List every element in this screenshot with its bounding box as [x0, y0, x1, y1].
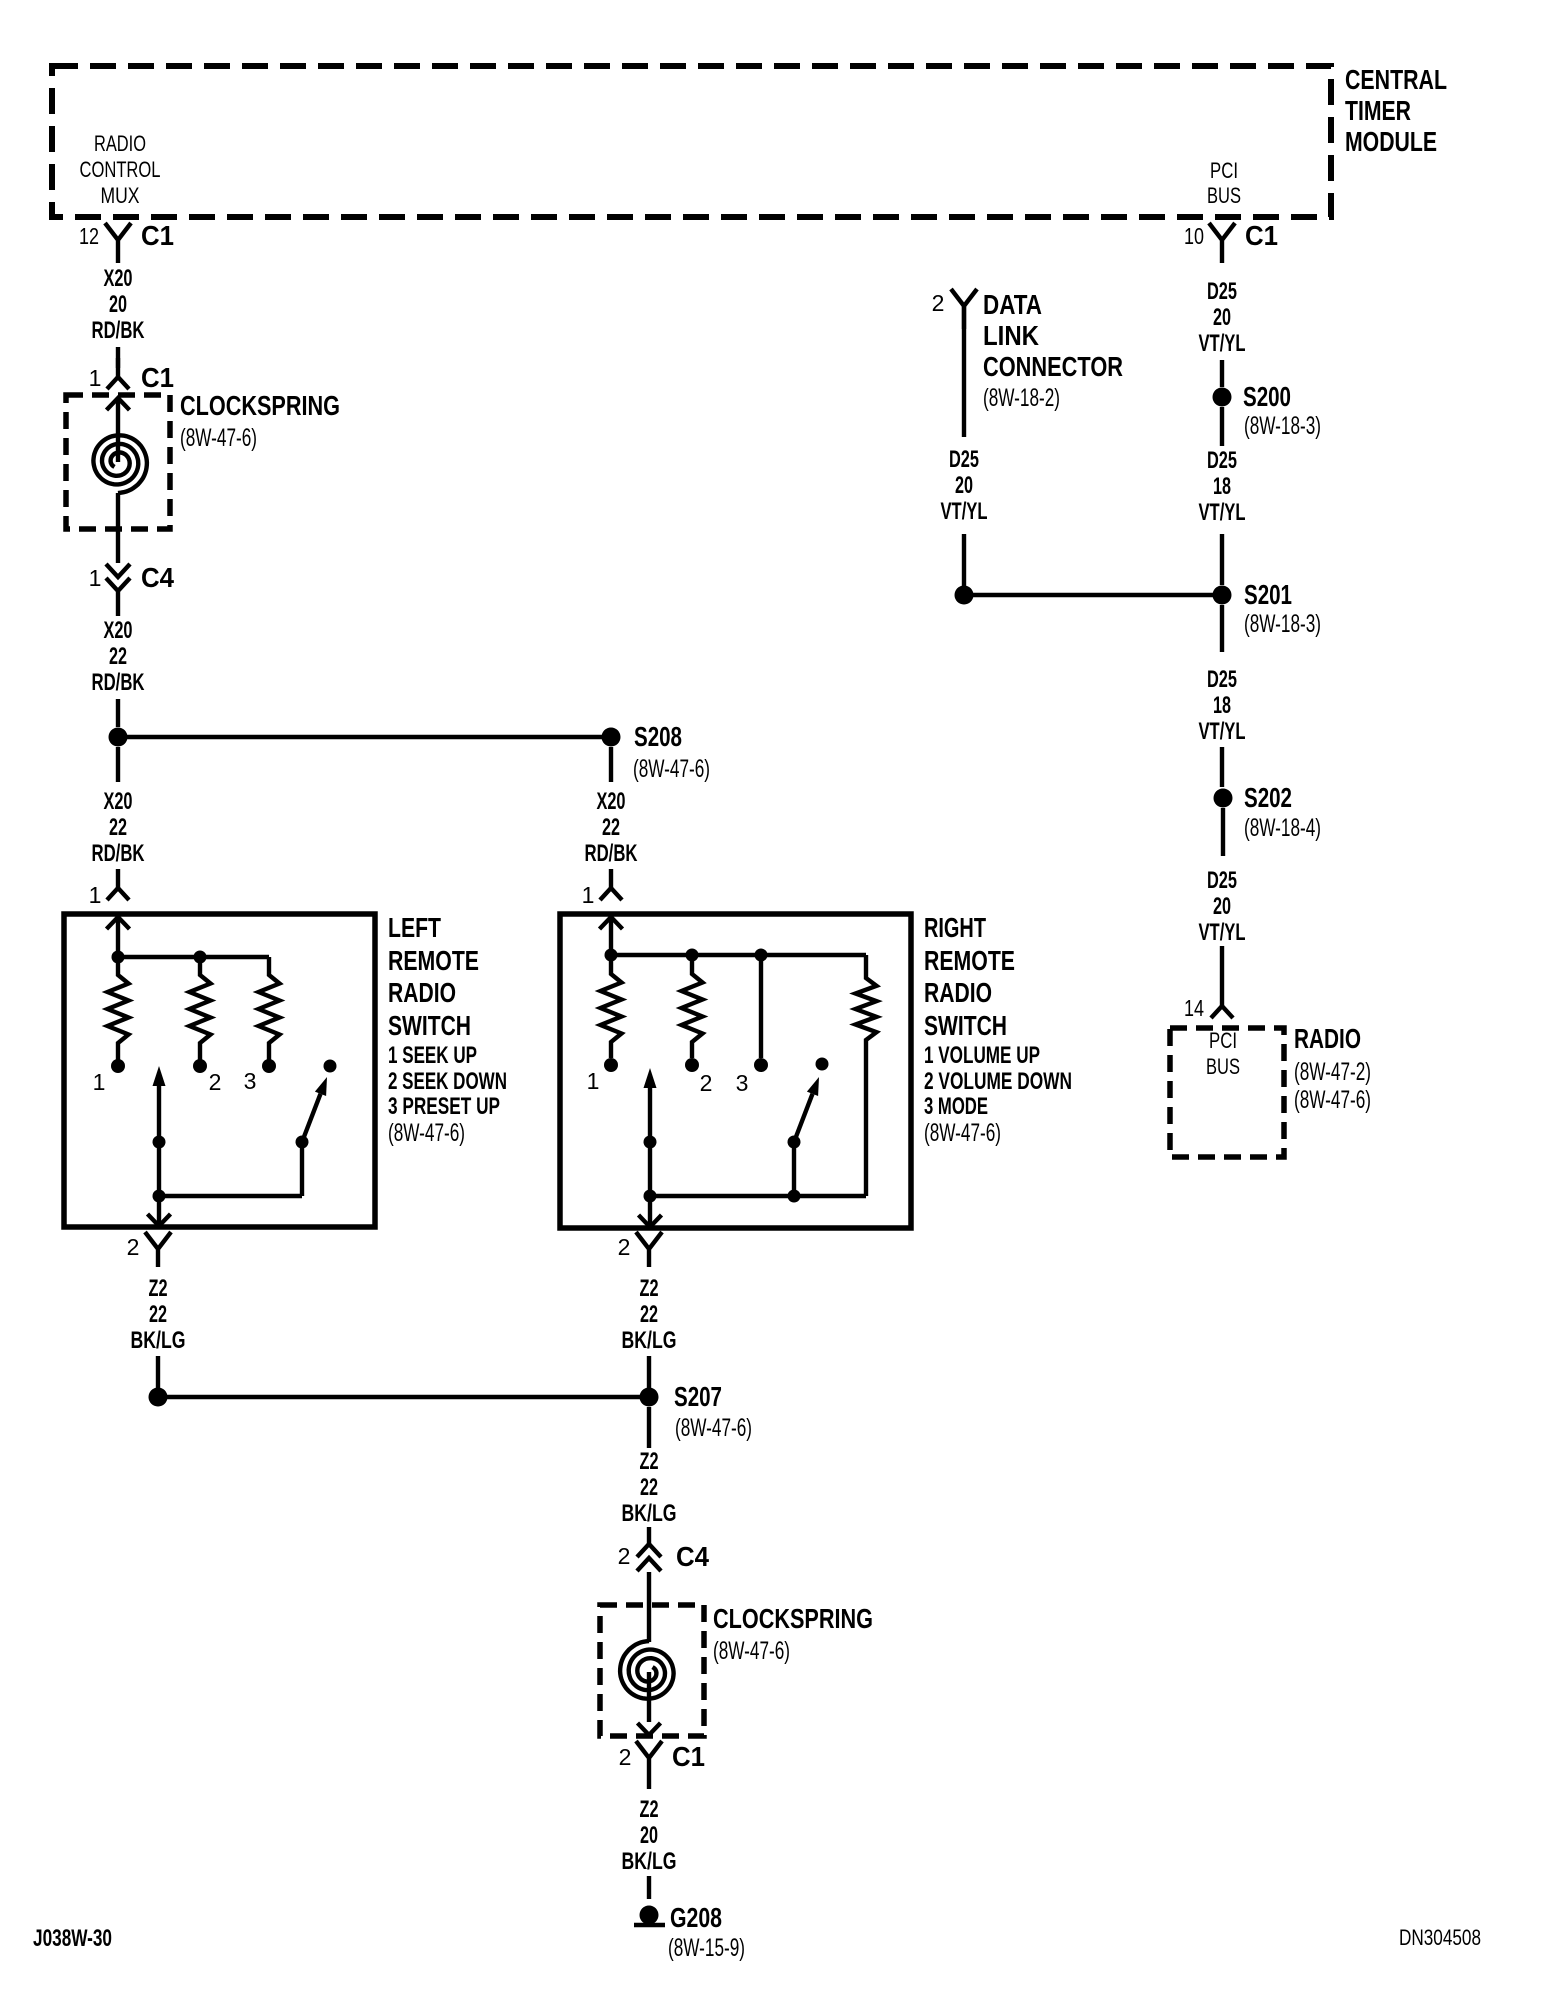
- connector C1 pin 10: [1184, 220, 1278, 263]
- junction on wiper (right switch): [644, 1190, 867, 1203]
- switch pivot (left switch): [296, 1077, 328, 1149]
- wire label D25 18 VT/YL (2): [1199, 666, 1246, 745]
- svg-text:VT/YL: VT/YL: [1199, 499, 1246, 526]
- central timer module: [52, 66, 1331, 217]
- svg-text:C4: C4: [676, 1541, 709, 1572]
- wire: [1220, 360, 1224, 387]
- svg-text:LEFT: LEFT: [388, 912, 441, 943]
- wire: [647, 1572, 651, 1642]
- svg-text:22: 22: [640, 1474, 658, 1501]
- svg-text:S207: S207: [674, 1381, 722, 1412]
- svg-text:(8W-47-6): (8W-47-6): [713, 1637, 790, 1665]
- svg-text:(8W-18-3): (8W-18-3): [1244, 610, 1321, 638]
- svg-text:12: 12: [79, 223, 99, 249]
- svg-text:CONNECTOR: CONNECTOR: [983, 351, 1123, 382]
- connector pin 2 (left switch, below box): [127, 1232, 171, 1267]
- left remote radio switch box: [64, 914, 375, 1227]
- wire: [1220, 747, 1224, 787]
- wire label X20 22 RD/BK: [92, 617, 145, 696]
- svg-text:DN304508: DN304508: [1399, 1925, 1481, 1950]
- svg-text:VT/YL: VT/YL: [1199, 330, 1246, 357]
- terminal 3 (right switch): [736, 1058, 768, 1096]
- svg-text:Z2: Z2: [640, 1448, 659, 1475]
- svg-text:C1: C1: [1245, 220, 1278, 251]
- wire label Z2 22 BK/LG (2): [622, 1448, 677, 1527]
- svg-text:D25: D25: [1207, 278, 1237, 305]
- wire: [1220, 407, 1224, 446]
- svg-text:20: 20: [109, 291, 127, 318]
- svg-text:3 PRESET UP: 3 PRESET UP: [388, 1093, 500, 1120]
- svg-text:VT/YL: VT/YL: [1199, 718, 1246, 745]
- label DATA LINK CONNECTOR: [983, 289, 1123, 412]
- svg-text:2: 2: [127, 1234, 140, 1260]
- svg-text:MODULE: MODULE: [1345, 126, 1437, 157]
- svg-text:(8W-47-6): (8W-47-6): [1294, 1086, 1371, 1114]
- svg-text:(8W-15-9): (8W-15-9): [668, 1934, 745, 1962]
- svg-text:BK/LG: BK/LG: [131, 1327, 186, 1354]
- node junction (left switch): [112, 951, 270, 964]
- svg-text:22: 22: [640, 1301, 658, 1328]
- svg-text:PCI: PCI: [1209, 1028, 1237, 1053]
- wire label D25 18 VT/YL: [1199, 447, 1246, 526]
- svg-text:VT/YL: VT/YL: [1199, 919, 1246, 946]
- terminal 3 (left switch): [244, 1059, 276, 1094]
- svg-text:J038W-30: J038W-30: [33, 1925, 112, 1952]
- svg-text:SWITCH: SWITCH: [924, 1010, 1007, 1041]
- splice S202: [1214, 782, 1322, 842]
- svg-text:BK/LG: BK/LG: [622, 1500, 677, 1527]
- svg-text:CLOCKSPRING: CLOCKSPRING: [713, 1603, 873, 1634]
- svg-text:2: 2: [209, 1069, 222, 1095]
- svg-text:S208: S208: [634, 721, 682, 752]
- svg-text:2: 2: [618, 1234, 631, 1260]
- junction on wiper (left switch): [153, 1136, 166, 1149]
- wire: [156, 1356, 160, 1388]
- switch blade contact (right switch): [816, 1058, 829, 1071]
- wire: [647, 1407, 651, 1448]
- terminal 2 (right switch): [685, 1058, 712, 1096]
- label RADIO: [1294, 1023, 1371, 1114]
- wire label Z2 20 BK/LG: [622, 1796, 677, 1875]
- svg-text:1 VOLUME UP: 1 VOLUME UP: [924, 1042, 1040, 1069]
- label PCI BUS (central timer module): [1207, 158, 1241, 208]
- label RADIO CONTROL MUX: [80, 131, 161, 208]
- svg-text:20: 20: [955, 472, 973, 499]
- svg-text:1: 1: [89, 365, 102, 391]
- wire label X20 22 RD/BK (right): [585, 788, 638, 867]
- drawing number J038W-30: [33, 1925, 112, 1952]
- wire label D25 20 VT/YL (2): [1199, 867, 1246, 946]
- wire label Z2 22 BK/LG (left): [131, 1275, 186, 1354]
- svg-text:C1: C1: [141, 362, 174, 393]
- exit arrow from clockspring: [638, 1723, 661, 1735]
- svg-text:C1: C1: [141, 220, 174, 251]
- wire: [1220, 946, 1224, 1006]
- wire: [116, 747, 120, 782]
- svg-text:REMOTE: REMOTE: [924, 945, 1015, 976]
- clockspring (top) dashed box: [66, 395, 170, 529]
- junction pivot base (right switch): [788, 1142, 801, 1203]
- wiper arrow (left switch): [153, 1066, 166, 1224]
- svg-text:2 VOLUME DOWN: 2 VOLUME DOWN: [924, 1068, 1072, 1095]
- svg-text:BUS: BUS: [1206, 1054, 1240, 1079]
- svg-text:TIMER: TIMER: [1345, 95, 1411, 126]
- svg-text:X20: X20: [104, 788, 133, 815]
- svg-text:D25: D25: [1207, 447, 1237, 474]
- svg-text:18: 18: [1213, 473, 1231, 500]
- wire: [962, 534, 966, 586]
- wire: [647, 1672, 651, 1722]
- switch blade contact (left switch): [324, 1060, 337, 1073]
- svg-text:3: 3: [244, 1068, 257, 1094]
- svg-text:LINK: LINK: [983, 320, 1039, 351]
- wire: [647, 1356, 651, 1388]
- wire: [116, 398, 120, 462]
- svg-text:1: 1: [89, 565, 102, 591]
- svg-text:2 SEEK DOWN: 2 SEEK DOWN: [388, 1068, 507, 1095]
- wire label X20 20 RD/BK: [92, 265, 145, 344]
- svg-text:S201: S201: [1244, 579, 1292, 610]
- svg-text:(8W-18-2): (8W-18-2): [983, 384, 1060, 412]
- svg-text:RADIO: RADIO: [388, 977, 456, 1008]
- svg-text:(8W-47-6): (8W-47-6): [388, 1119, 465, 1147]
- resistor R2 (right switch): [682, 955, 703, 1058]
- wire: [1220, 605, 1224, 652]
- svg-text:2: 2: [619, 1744, 632, 1770]
- wire label X20 22 RD/BK (left): [92, 788, 145, 867]
- wire label Z2 22 BK/LG (right): [622, 1275, 677, 1354]
- svg-text:G208: G208: [670, 1902, 722, 1933]
- svg-text:3 MODE: 3 MODE: [924, 1093, 988, 1120]
- splice S201: [955, 579, 1322, 638]
- svg-text:C4: C4: [141, 562, 174, 593]
- svg-text:RD/BK: RD/BK: [92, 669, 145, 696]
- exit arrow pin 2 (right switch): [639, 1215, 662, 1227]
- svg-text:D25: D25: [949, 446, 979, 473]
- svg-text:20: 20: [1213, 893, 1231, 920]
- wire: [962, 306, 966, 437]
- splice S207: [149, 1381, 753, 1442]
- svg-text:D25: D25: [1207, 666, 1237, 693]
- wire label D25 20 VT/YL: [1199, 278, 1246, 357]
- svg-text:Z2: Z2: [640, 1796, 659, 1823]
- svg-text:C1: C1: [672, 1741, 705, 1772]
- svg-text:3: 3: [736, 1070, 749, 1096]
- svg-text:14: 14: [1184, 995, 1204, 1021]
- label LEFT REMOTE RADIO SWITCH: [388, 912, 507, 1147]
- svg-text:2: 2: [932, 290, 945, 316]
- connector C1 pin 1 (clockspring): [89, 358, 174, 393]
- svg-text:18: 18: [1213, 692, 1231, 719]
- svg-text:1 SEEK UP: 1 SEEK UP: [388, 1042, 477, 1069]
- svg-text:CENTRAL: CENTRAL: [1345, 64, 1447, 95]
- splice S200: [1213, 381, 1322, 440]
- drawing number DN304508: [1399, 1925, 1481, 1950]
- exit arrow pin 2 (left switch): [148, 1214, 171, 1226]
- svg-text:RADIO: RADIO: [94, 131, 146, 156]
- svg-text:1: 1: [582, 882, 595, 908]
- svg-text:1: 1: [93, 1069, 106, 1095]
- resistor R4 (right switch): [856, 955, 877, 1196]
- wire: [609, 747, 613, 782]
- splice S208: [109, 721, 711, 783]
- wiper arrow (right switch): [644, 1068, 657, 1225]
- svg-text:CONTROL: CONTROL: [80, 157, 161, 182]
- ground G208: [634, 1902, 745, 1962]
- clockspring coil (top): [93, 435, 146, 493]
- svg-text:22: 22: [109, 643, 127, 670]
- svg-text:2: 2: [700, 1070, 713, 1096]
- svg-text:RIGHT: RIGHT: [924, 912, 986, 943]
- wire: [116, 493, 120, 563]
- svg-text:RD/BK: RD/BK: [92, 317, 145, 344]
- resistor R1 (left switch): [108, 957, 129, 1060]
- svg-text:MUX: MUX: [101, 183, 140, 208]
- clockspring (bottom) dashed box: [600, 1605, 704, 1736]
- svg-text:SWITCH: SWITCH: [388, 1010, 471, 1041]
- svg-text:D25: D25: [1207, 867, 1237, 894]
- svg-text:22: 22: [602, 814, 620, 841]
- label CLOCKSPRING (top): [180, 390, 340, 452]
- svg-text:X20: X20: [597, 788, 626, 815]
- svg-text:(8W-18-3): (8W-18-3): [1244, 412, 1321, 440]
- entry arrow pin 1 (right switch): [600, 917, 623, 955]
- wire: [116, 699, 120, 727]
- svg-text:(8W-47-6): (8W-47-6): [633, 755, 710, 783]
- wire: [1220, 534, 1224, 585]
- terminal 1 (right switch): [587, 1058, 618, 1094]
- svg-text:PCI: PCI: [1210, 158, 1238, 183]
- entry arrow into clockspring: [107, 398, 130, 410]
- svg-text:BK/LG: BK/LG: [622, 1327, 677, 1354]
- svg-text:1: 1: [587, 1068, 600, 1094]
- label PCI BUS (radio): [1206, 1028, 1240, 1079]
- svg-text:REMOTE: REMOTE: [388, 945, 479, 976]
- wire: [647, 1876, 651, 1899]
- wire: [1221, 808, 1225, 856]
- svg-text:2: 2: [618, 1543, 631, 1569]
- junction on wiper (left switch): [153, 1142, 303, 1203]
- wire: [116, 347, 120, 368]
- terminal 1 (left switch): [93, 1059, 125, 1095]
- svg-text:VT/YL: VT/YL: [941, 498, 988, 525]
- label CENTRAL TIMER MODULE: [1345, 64, 1447, 157]
- entry arrow pin 1 (left switch): [107, 917, 130, 957]
- svg-text:10: 10: [1184, 223, 1204, 249]
- connector pin 1 (right remote radio switch): [582, 869, 622, 908]
- svg-text:Z2: Z2: [149, 1275, 168, 1302]
- svg-text:RD/BK: RD/BK: [92, 840, 145, 867]
- svg-text:S202: S202: [1244, 782, 1292, 813]
- connector C4 pin 2 (clockspring): [618, 1541, 710, 1572]
- node junction (right switch): [605, 949, 867, 962]
- right remote radio switch box: [560, 914, 911, 1228]
- svg-text:(8W-47-6): (8W-47-6): [924, 1119, 1001, 1147]
- svg-text:BUS: BUS: [1207, 183, 1241, 208]
- svg-text:DATA: DATA: [983, 289, 1042, 320]
- svg-text:RD/BK: RD/BK: [585, 840, 638, 867]
- wire label D25 20 VT/YL (dlc): [941, 446, 988, 525]
- svg-text:(8W-18-4): (8W-18-4): [1244, 814, 1321, 842]
- svg-text:20: 20: [640, 1822, 658, 1849]
- label CLOCKSPRING (bottom): [713, 1603, 873, 1665]
- svg-text:X20: X20: [104, 617, 133, 644]
- svg-text:S200: S200: [1243, 381, 1291, 412]
- svg-text:CLOCKSPRING: CLOCKSPRING: [180, 390, 340, 421]
- label RIGHT REMOTE RADIO SWITCH: [924, 912, 1072, 1147]
- terminal 2 (left switch): [193, 1059, 221, 1095]
- wire terminal 3 (right switch): [759, 955, 763, 1058]
- svg-text:22: 22: [149, 1301, 167, 1328]
- connector C4 pin 1 (clockspring): [89, 562, 175, 616]
- connector pin 2 (data link connector): [932, 289, 977, 329]
- connector C1 pin 12: [79, 220, 174, 263]
- clockspring coil (bottom): [620, 1641, 674, 1699]
- svg-text:Z2: Z2: [640, 1275, 659, 1302]
- resistor R1 (right switch): [601, 955, 622, 1058]
- svg-text:RADIO: RADIO: [1294, 1023, 1361, 1054]
- svg-text:(8W-47-6): (8W-47-6): [180, 424, 257, 452]
- svg-text:X20: X20: [104, 265, 133, 292]
- svg-text:22: 22: [109, 814, 127, 841]
- svg-text:(8W-47-2): (8W-47-2): [1294, 1058, 1371, 1086]
- svg-text:(8W-47-6): (8W-47-6): [675, 1414, 752, 1442]
- junction on wiper (right switch): [644, 1136, 657, 1149]
- svg-text:1: 1: [89, 882, 102, 908]
- resistor R2 (left switch): [190, 957, 211, 1060]
- switch pivot (right switch): [788, 1077, 820, 1149]
- svg-text:20: 20: [1213, 304, 1231, 331]
- svg-text:BK/LG: BK/LG: [622, 1848, 677, 1875]
- radio module dashed box: [1170, 1028, 1284, 1157]
- svg-text:RADIO: RADIO: [924, 977, 992, 1008]
- connector pin 1 (left remote radio switch): [89, 869, 129, 908]
- wire: [647, 1527, 651, 1544]
- connector C1 pin 2 (clockspring bottom): [619, 1741, 705, 1789]
- connector pin 14 (radio): [1184, 995, 1233, 1021]
- resistor R3 (left switch): [259, 957, 280, 1060]
- connector pin 2 (right switch, below box): [618, 1232, 662, 1267]
